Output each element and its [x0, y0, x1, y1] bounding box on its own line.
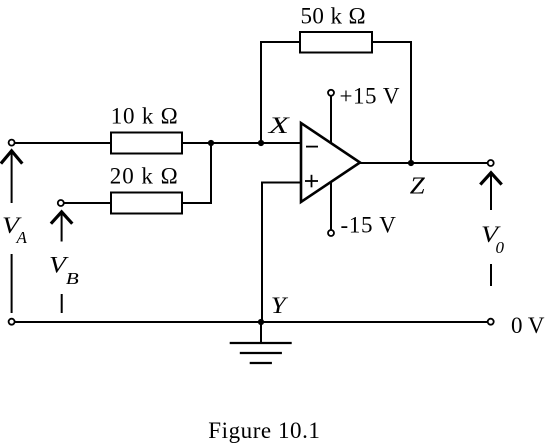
- label node Z: [410, 173, 425, 200]
- svg-text:-15 V: -15 V: [341, 213, 397, 238]
- label VA: [2, 213, 28, 247]
- svg-text:Z: Z: [410, 173, 425, 200]
- terminal circle bottom-right: [488, 319, 494, 325]
- op-amp U1 triangle: [301, 123, 360, 202]
- svg-text:B: B: [66, 269, 80, 288]
- wire: feedback top-right horizontal: [372, 41, 412, 43]
- svg-text:Figure 10.1: Figure 10.1: [208, 418, 320, 443]
- caption Figure 10.1: [208, 418, 320, 443]
- wire: riser from 20k up to junction: [210, 143, 212, 204]
- wire: VB input horizontal to 20k: [64, 202, 111, 204]
- op-amp minus sign: [306, 146, 318, 148]
- terminal circle output: [488, 160, 494, 166]
- wire: VA lower dash: [11, 254, 13, 313]
- arrow V0: [480, 173, 501, 210]
- svg-text:Y: Y: [271, 293, 289, 318]
- op-amp plus sign: [305, 175, 318, 188]
- wire: +15V supply drop: [330, 96, 332, 144]
- label +15 V: [340, 83, 400, 108]
- label node X: [267, 113, 290, 138]
- wire: VB lower dash: [61, 294, 63, 313]
- wire: V0 lower dash: [490, 264, 492, 286]
- wire: 20k right to riser: [182, 202, 211, 204]
- label 50 k Ohm: [301, 3, 366, 28]
- arrow VA: [1, 151, 22, 203]
- node X dot: [258, 140, 264, 146]
- terminal circle bottom-left: [9, 319, 15, 325]
- resistor R3 50k box: [300, 32, 372, 53]
- label 20 k Ohm: [110, 164, 178, 189]
- label V0: [481, 222, 505, 257]
- wire: VA input horizontal to 10k: [15, 142, 111, 144]
- ground: [230, 343, 292, 363]
- terminal circle -15V: [328, 230, 334, 236]
- wire: feedback left vertical (X up): [260, 42, 262, 143]
- terminal circle VB input: [58, 200, 64, 206]
- arrow VB: [51, 212, 72, 242]
- node Y dot: [258, 319, 264, 325]
- svg-text:+15 V: +15 V: [340, 83, 400, 108]
- wire: 10k to junction node: [182, 142, 211, 144]
- wire: feedback right vertical down to Z: [410, 41, 412, 163]
- label 0 V: [511, 313, 545, 338]
- svg-text:20 k Ω: 20 k Ω: [110, 164, 178, 189]
- wire: -15V supply drop: [330, 182, 332, 230]
- label -15 V: [341, 213, 397, 238]
- wire: bottom rail: [15, 321, 488, 323]
- wire: op-amp output to terminal: [360, 162, 488, 164]
- wire: feedback top-left horizontal: [260, 41, 300, 43]
- terminal circle +15V: [328, 90, 334, 96]
- wire: X to op-amp inverting input: [261, 142, 301, 144]
- label 10 k Ohm: [111, 103, 178, 128]
- terminal circle VA input: [9, 140, 15, 146]
- wire: non-inverting input stub: [261, 182, 301, 184]
- label node Y: [271, 293, 289, 318]
- wire: junction to node X: [211, 142, 261, 144]
- svg-text:0 V: 0 V: [511, 313, 545, 338]
- svg-text:10 k Ω: 10 k Ω: [111, 103, 178, 128]
- wire: Y down to ground: [260, 322, 262, 343]
- svg-text:X: X: [267, 113, 290, 138]
- svg-text:A: A: [16, 228, 28, 247]
- resistor R1 10k box: [111, 133, 182, 154]
- node Z dot: [408, 160, 414, 166]
- wire: non-inverting input down to Y: [261, 183, 263, 323]
- svg-text:50 k Ω: 50 k Ω: [301, 3, 366, 28]
- svg-text:0: 0: [496, 238, 505, 257]
- junction dot (10k/20k join): [208, 140, 214, 146]
- resistor R2 20k box: [111, 193, 182, 214]
- label VB: [49, 253, 80, 289]
